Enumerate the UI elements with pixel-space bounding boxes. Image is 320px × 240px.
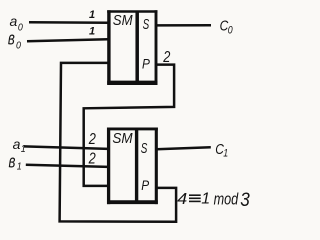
- svg-text:SM: SM: [112, 131, 132, 147]
- svg-text:0: 0: [16, 40, 21, 52]
- svg-text:2: 2: [88, 131, 96, 149]
- svg-text:SM: SM: [113, 13, 133, 29]
- svg-text:1: 1: [21, 144, 26, 156]
- svg-text:mod: mod: [214, 190, 239, 208]
- svg-text:1: 1: [201, 191, 210, 208]
- svg-text:4: 4: [177, 190, 187, 208]
- svg-text:2: 2: [88, 150, 96, 168]
- svg-text:2: 2: [162, 49, 170, 67]
- svg-text:3: 3: [240, 189, 250, 210]
- svg-text:a: a: [10, 13, 18, 29]
- svg-text:P: P: [141, 177, 149, 193]
- svg-text:1: 1: [17, 161, 22, 173]
- svg-text:S: S: [141, 139, 148, 157]
- svg-text:в: в: [9, 151, 16, 172]
- svg-text:1: 1: [89, 9, 95, 21]
- svg-text:1: 1: [223, 148, 228, 160]
- svg-text:a: a: [13, 136, 21, 152]
- svg-text:S: S: [143, 15, 150, 33]
- svg-text:в: в: [8, 29, 15, 50]
- svg-text:1: 1: [89, 26, 95, 38]
- svg-text:0: 0: [18, 22, 23, 34]
- svg-text:P: P: [142, 55, 150, 71]
- svg-text:0: 0: [228, 24, 233, 36]
